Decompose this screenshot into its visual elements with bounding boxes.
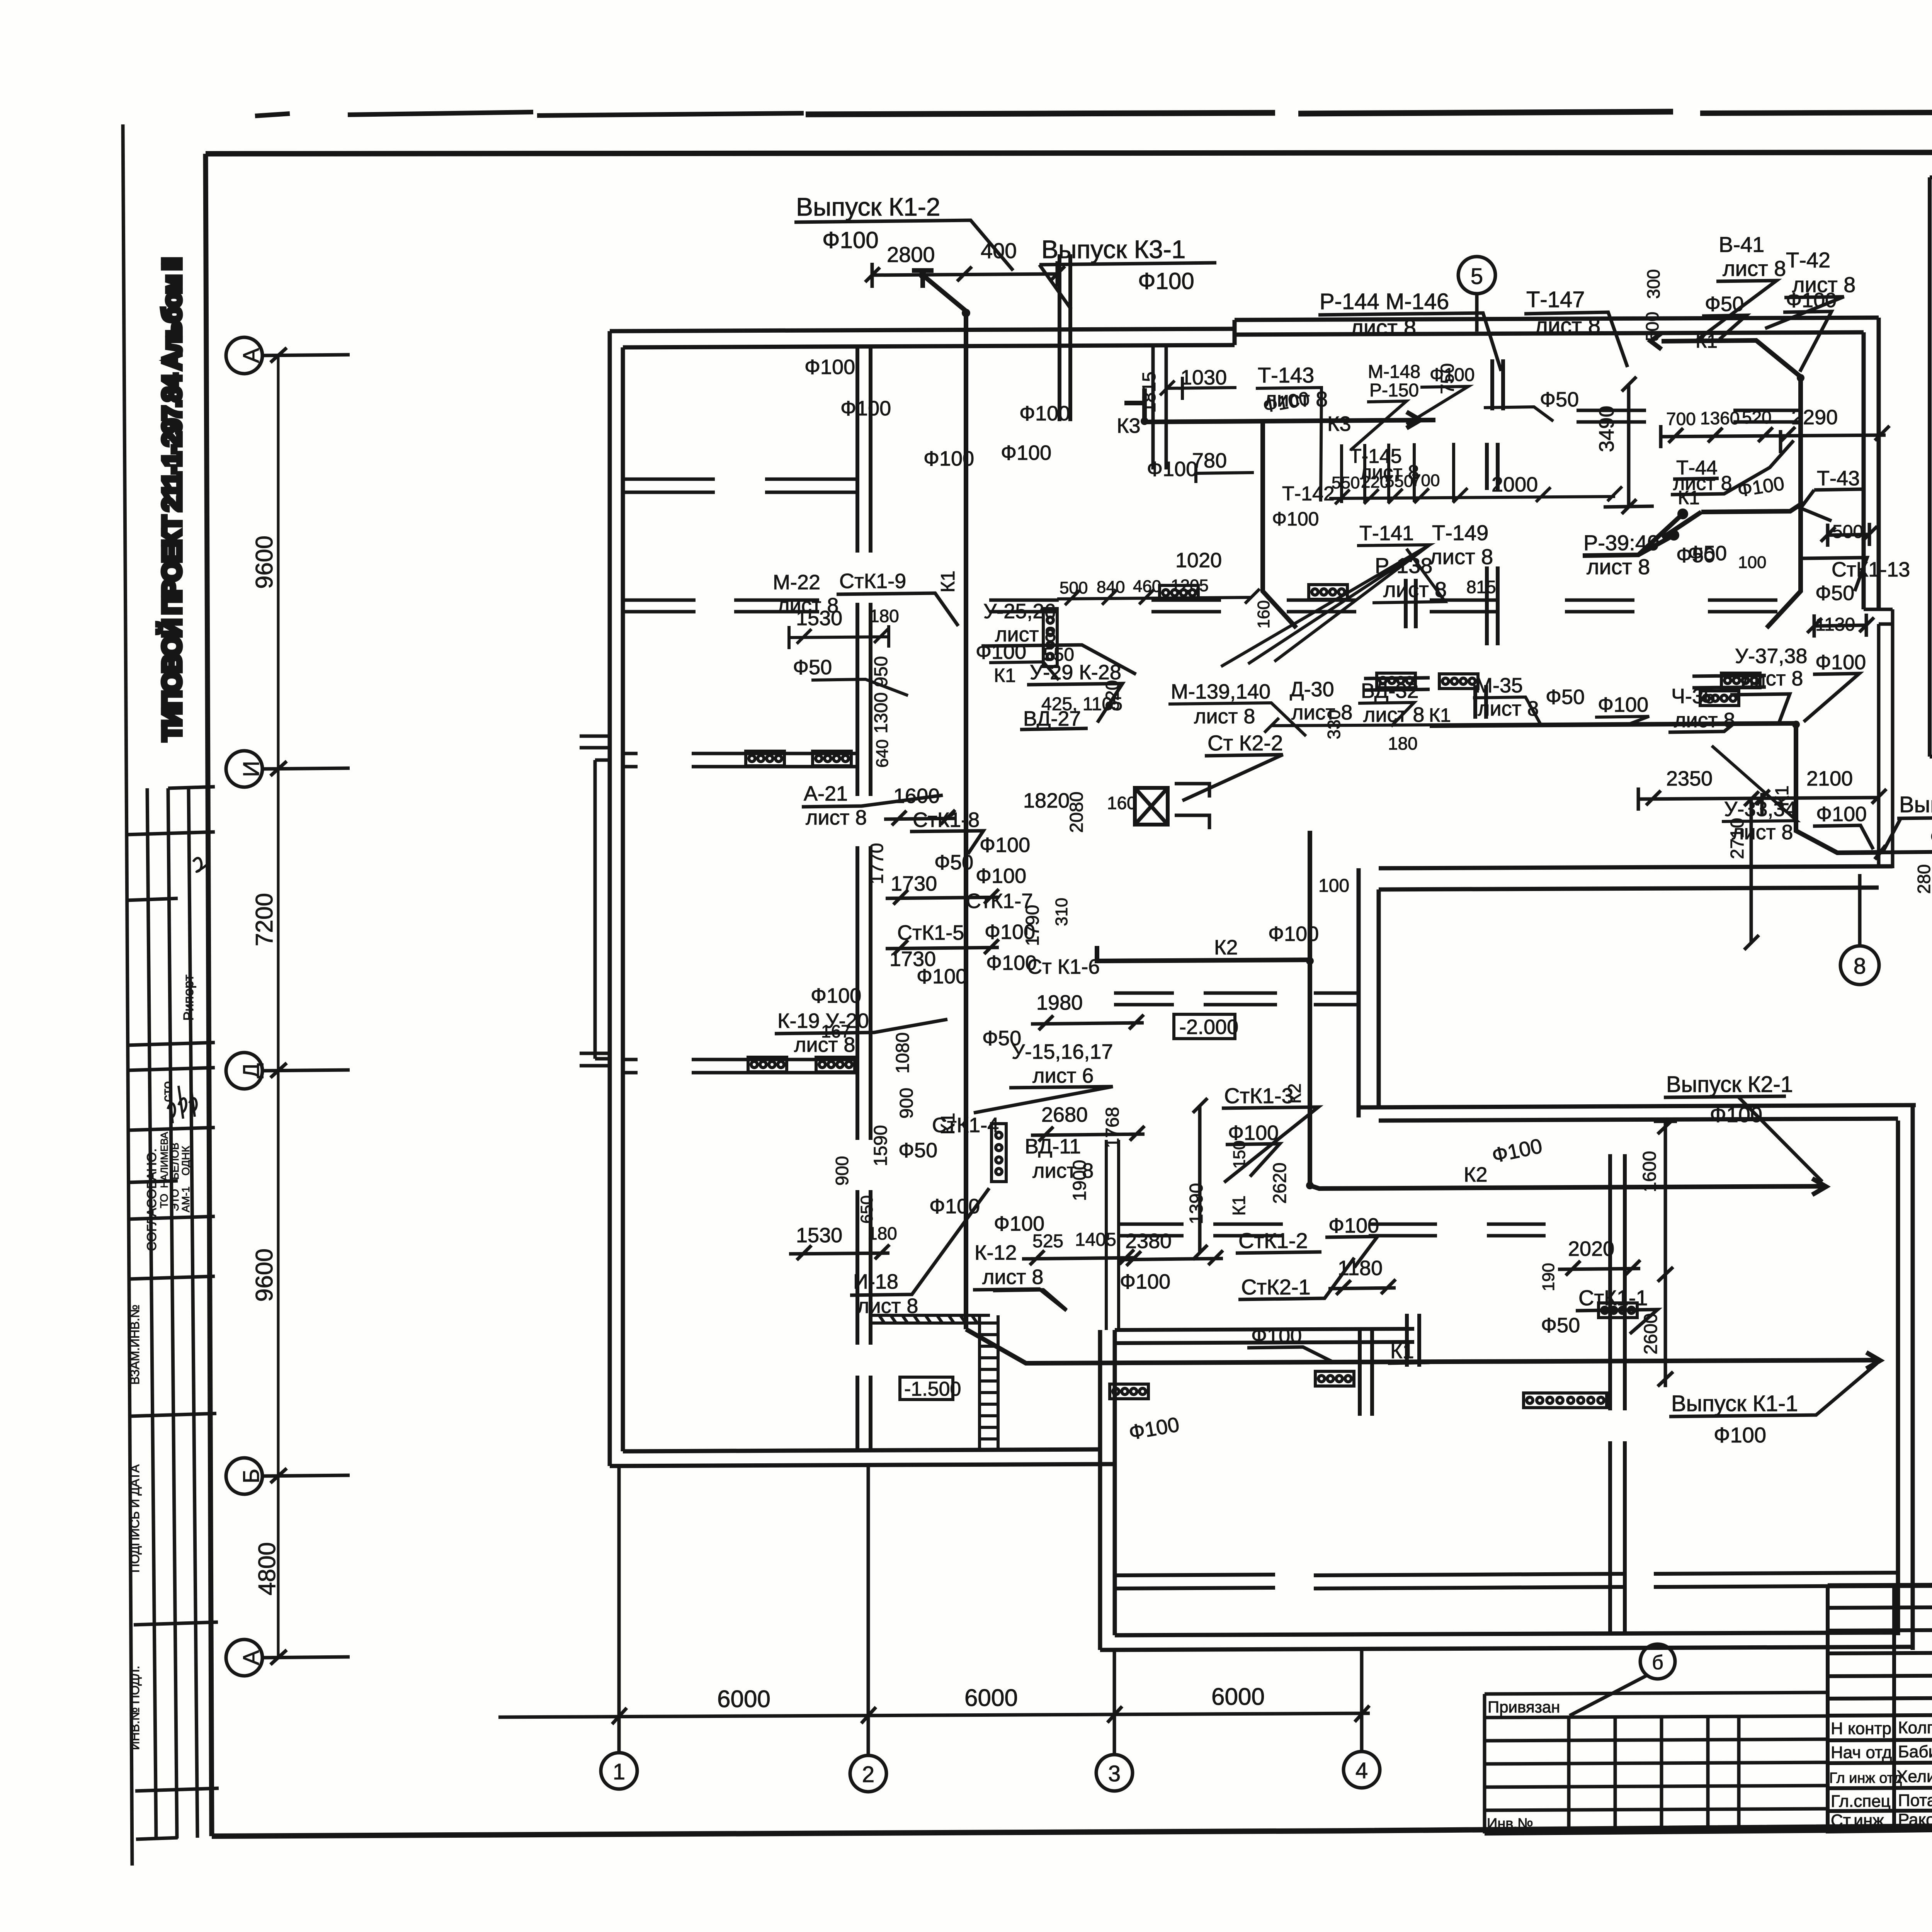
svg-text:Ф100: Ф100 (1272, 508, 1319, 530)
svg-text:Ф50: Ф50 (1676, 544, 1715, 567)
svg-text:лист 8: лист 8 (1587, 554, 1650, 579)
svg-text:Инв.№: Инв.№ (1487, 1816, 1533, 1832)
svg-text:4800: 4800 (254, 1542, 281, 1595)
svg-text:7200: 7200 (251, 893, 278, 946)
partition stubs upper row (989, 347, 1803, 612)
svg-text:Ф50: Ф50 (793, 656, 832, 679)
svg-text:900: 900 (896, 1088, 917, 1119)
svg-text:Гл.спец: Гл.спец (1831, 1792, 1891, 1811)
svg-text:4: 4 (1355, 1758, 1368, 1783)
svg-text:У-25,26: У-25,26 (983, 600, 1056, 623)
wall left bump (595, 760, 610, 1059)
svg-text:ТИПОВОЙ ПРОЕКТ 211-1-297.84 А: ТИПОВОЙ ПРОЕКТ 211-1-297.84 Альбом II (157, 257, 187, 741)
svg-text:6000: 6000 (717, 1686, 770, 1713)
svg-text:лист 8: лист 8 (1194, 705, 1255, 728)
svg-text:А: А (239, 1650, 264, 1665)
svg-text:2800: 2800 (887, 242, 935, 267)
svg-text:СтК1-2: СтК1-2 (1238, 1228, 1308, 1253)
svg-text:ЭТО: ЭТО (169, 1189, 181, 1211)
svg-text:А: А (239, 348, 264, 363)
svg-text:К3: К3 (1327, 412, 1351, 435)
svg-text:1768: 1768 (1102, 1107, 1123, 1148)
svg-text:640: 640 (873, 739, 892, 767)
svg-text:К1: К1 (1678, 487, 1700, 509)
svg-text:И-18: И-18 (853, 1270, 898, 1293)
wall left (610, 331, 623, 1466)
svg-text:К2: К2 (1284, 1083, 1304, 1104)
svg-text:К1: К1 (1429, 704, 1451, 726)
svg-text:9600: 9600 (251, 536, 278, 589)
wall bottom right block (1100, 1633, 1913, 1650)
top scan smudge band (255, 111, 1932, 116)
svg-text:1900: 1900 (1070, 1160, 1090, 1201)
svg-text:лист 8: лист 8 (1535, 313, 1600, 338)
svg-text:лист 8: лист 8 (1430, 544, 1493, 569)
left trim line (123, 124, 132, 1866)
wall bottom left block (610, 1449, 1115, 1466)
svg-text:160: 160 (1107, 793, 1137, 813)
elevator shaft (1135, 784, 1209, 829)
svg-text:К-19 У-20: К-19 У-20 (777, 1009, 869, 1032)
svg-text:700: 700 (1666, 409, 1696, 429)
svg-text:ИНВ.№ ПОДЛ.: ИНВ.№ ПОДЛ. (128, 1666, 142, 1750)
left dim labels (251, 536, 281, 1595)
svg-text:3490: 3490 (1595, 406, 1618, 452)
svg-text:Ф100: Ф100 (923, 447, 974, 470)
wall top-left (610, 329, 1235, 347)
svg-text:Ст.инж: Ст.инж (1831, 1811, 1884, 1830)
svg-text:2680: 2680 (1041, 1103, 1088, 1126)
svg-text:1530: 1530 (796, 1224, 842, 1247)
wall top-right (1235, 318, 1879, 345)
svg-text:Т-42: Т-42 (1786, 248, 1830, 272)
svg-text:ТО: ТО (158, 1194, 170, 1208)
svg-text:190: 190 (1539, 1263, 1558, 1291)
ventilation grates (746, 751, 784, 766)
svg-text:К3: К3 (1117, 414, 1141, 437)
svg-text:Ф100: Ф100 (1019, 402, 1070, 425)
svg-text:2620: 2620 (1270, 1163, 1290, 1204)
svg-text:1730: 1730 (891, 872, 937, 895)
svg-text:2350: 2350 (1666, 767, 1713, 790)
svg-text:Ф50: Ф50 (934, 851, 973, 874)
svg-text:2100: 2100 (1806, 767, 1853, 790)
svg-text:Ф100: Ф100 (1120, 1270, 1170, 1293)
svg-text:Ф100: Ф100 (1930, 825, 1932, 849)
wall corridor left (1359, 868, 1379, 1117)
svg-text:СтК1-13: СтК1-13 (1832, 558, 1910, 581)
stair (871, 1315, 998, 1449)
level box -1.500 (900, 1377, 953, 1400)
svg-text:Потапова: Потапова (1898, 1791, 1932, 1810)
svg-text:К1: К1 (994, 665, 1016, 686)
svg-text:К-12: К-12 (975, 1241, 1017, 1264)
svg-text:У-37,38: У-37,38 (1735, 645, 1807, 668)
svg-text:Т-149: Т-149 (1432, 520, 1488, 545)
svg-text:Ф100: Ф100 (917, 965, 967, 988)
level box -2.000 (1174, 1014, 1235, 1039)
svg-text:Ф50: Ф50 (982, 1027, 1021, 1050)
svg-text:500: 500 (1642, 312, 1662, 342)
svg-text:Ф100: Ф100 (1268, 922, 1319, 946)
interior walls right block (1106, 1140, 1625, 1635)
svg-text:К1: К1 (1390, 1340, 1414, 1363)
svg-text:Ст К1-6: Ст К1-6 (1027, 955, 1100, 978)
svg-text:180: 180 (869, 606, 899, 626)
svg-text:310: 310 (1052, 898, 1071, 926)
svg-text:Д-30: Д-30 (1290, 678, 1334, 701)
wall right jog (1864, 609, 1893, 868)
svg-text:Хелимский: Хелимский (1896, 1767, 1932, 1786)
svg-text:Ф100: Ф100 (1328, 1214, 1379, 1237)
svg-text:ВД-11: ВД-11 (1025, 1135, 1081, 1158)
wall right lower (1898, 1105, 1913, 1650)
svg-text:280: 280 (1914, 864, 1932, 894)
svg-text:лист 8: лист 8 (982, 1265, 1043, 1289)
sidebar small rotated labels (128, 975, 196, 1750)
svg-text:Т-141: Т-141 (1359, 522, 1414, 545)
privyazki mini table (1485, 1692, 1828, 1834)
svg-text:Т-142: Т-142 (1282, 483, 1335, 505)
svg-text:Ф50: Ф50 (1815, 582, 1854, 605)
svg-text:б: б (1652, 1651, 1663, 1674)
svg-text:СтК1-3: СтК1-3 (1224, 1083, 1294, 1108)
svg-text:-2.000: -2.000 (1179, 1015, 1238, 1039)
svg-text:Т-43: Т-43 (1817, 467, 1860, 490)
svg-text:525: 525 (1032, 1231, 1063, 1252)
left axis circles (226, 337, 350, 1676)
svg-text:500: 500 (1832, 522, 1863, 542)
svg-text:1300: 1300 (871, 692, 891, 734)
svg-text:И: И (239, 761, 264, 777)
svg-text:Ф100: Ф100 (929, 1195, 980, 1218)
svg-text:Выпуск К2-1: Выпуск К2-1 (1666, 1072, 1793, 1097)
svg-text:СОГЛАСОВАНО:: СОГЛАСОВАНО: (145, 1148, 159, 1251)
interior partitions left block (580, 479, 857, 1073)
svg-text:Ф50: Ф50 (1541, 1314, 1580, 1337)
svg-text:ВД-27: ВД-27 (1023, 707, 1081, 730)
svg-text:Ф100: Ф100 (1138, 268, 1194, 294)
svg-text:лист 8: лист 8 (1723, 256, 1786, 281)
svg-text:815: 815 (1466, 577, 1496, 597)
svg-text:1790: 1790 (1022, 905, 1043, 946)
svg-text:Ф100: Ф100 (811, 984, 861, 1007)
svg-text:лист 6: лист 6 (1032, 1064, 1094, 1087)
svg-text:2710: 2710 (1727, 818, 1748, 859)
svg-text:Ф100: Ф100 (804, 355, 855, 379)
svg-text:Ф100: Ф100 (1147, 457, 1197, 481)
svg-text:Ф50: Ф50 (1705, 293, 1744, 316)
svg-text:1020: 1020 (1175, 549, 1222, 572)
svg-text:лист 8: лист 8 (857, 1294, 918, 1318)
partition stubs lower row (1117, 1224, 1546, 1236)
svg-text:100: 100 (1318, 876, 1349, 896)
svg-text:ОДНК: ОДНК (180, 1146, 192, 1175)
svg-text:1: 1 (613, 1759, 625, 1784)
svg-text:Гл инж отд: Гл инж отд (1829, 1770, 1902, 1786)
bottom axis (498, 1466, 1380, 1792)
svg-text:2080: 2080 (1066, 792, 1087, 833)
svg-text:3: 3 (1108, 1761, 1121, 1786)
svg-text:Ракова: Ракова (1898, 1810, 1932, 1829)
svg-text:НАЛИМЕВА: НАЛИМЕВА (158, 1132, 170, 1188)
left sidebar strip (126, 787, 219, 1839)
svg-text:700: 700 (1412, 471, 1440, 490)
svg-text:Рипорт: Рипорт (180, 975, 196, 1020)
svg-text:К1: К1 (1772, 786, 1793, 807)
svg-text:лист 8: лист 8 (1350, 315, 1416, 340)
svg-text:М-35: М-35 (1475, 674, 1523, 697)
svg-text:1390: 1390 (1186, 1183, 1207, 1225)
svg-text:ПОДПИСЬ И ДАТА: ПОДПИСЬ И ДАТА (128, 1464, 142, 1573)
svg-text:8: 8 (1854, 954, 1866, 979)
svg-text:1030: 1030 (1180, 366, 1227, 389)
svg-text:1590: 1590 (871, 1125, 891, 1167)
svg-text:300: 300 (1643, 269, 1663, 299)
svg-text:Д: Д (239, 1063, 264, 1078)
svg-text:1080: 1080 (893, 1032, 913, 1074)
svg-text:К1: К1 (1229, 1196, 1249, 1216)
svg-text:М-22: М-22 (773, 571, 820, 594)
svg-text:Р-144 М-146: Р-144 М-146 (1320, 289, 1449, 314)
svg-text:-1.500: -1.500 (904, 1378, 961, 1400)
svg-text:лист 8: лист 8 (794, 1033, 855, 1056)
svg-text:6000: 6000 (1211, 1684, 1265, 1710)
svg-text:Бабин: Бабин (1898, 1742, 1932, 1761)
svg-text:У-15,16,17: У-15,16,17 (1012, 1040, 1113, 1063)
building outer walls (595, 318, 1916, 1650)
circle b pointer (1570, 1644, 1675, 1716)
svg-text:АМ-1: АМ-1 (180, 1187, 192, 1213)
svg-text:Ф100: Ф100 (980, 833, 1030, 857)
svg-text:1980: 1980 (1036, 991, 1083, 1014)
svg-text:А-21: А-21 (804, 782, 848, 805)
svg-text:Ф100: Ф100 (822, 227, 879, 253)
variant outline (1930, 169, 1932, 182)
svg-text:160: 160 (1254, 600, 1273, 628)
svg-text:400: 400 (981, 238, 1017, 263)
svg-text:Выпуск К1-2: Выпуск К1-2 (796, 192, 940, 221)
svg-text:Н контр.: Н контр. (1831, 1719, 1896, 1738)
wall right upper (1864, 318, 1879, 609)
pipe K2 (1097, 831, 1826, 1195)
svg-text:Ф100: Ф100 (1598, 693, 1648, 716)
svg-text:6000: 6000 (964, 1685, 1018, 1711)
sheet border frame (206, 152, 1932, 154)
wall corridor bottom (1359, 1105, 1916, 1121)
svg-text:1405: 1405 (1075, 1230, 1116, 1250)
svg-text:5: 5 (1471, 264, 1483, 289)
svg-text:Ф100: Ф100 (1001, 441, 1051, 464)
svg-text:Выпуск К1-3: Выпуск К1-3 (1899, 792, 1932, 817)
pipe K1 upper right (1430, 333, 1880, 853)
svg-text:СтК1-1: СтК1-1 (1578, 1286, 1648, 1310)
svg-text:Ф100: Ф100 (1251, 1324, 1302, 1347)
svg-text:М-148: М-148 (1368, 362, 1420, 382)
svg-text:сто: сто (159, 1081, 175, 1102)
svg-text:2290: 2290 (1791, 406, 1838, 429)
svg-text:Выпуск К3-1: Выпуск К3-1 (1041, 235, 1186, 264)
svg-text:Т-143: Т-143 (1258, 363, 1314, 387)
svg-text:460: 460 (1133, 577, 1161, 596)
svg-text:1600: 1600 (1639, 1151, 1660, 1192)
svg-text:Колганова: Колганова (1898, 1718, 1932, 1737)
svg-text:Ф50: Ф50 (1546, 685, 1585, 709)
svg-text:К1: К1 (937, 571, 959, 593)
svg-text:1815: 1815 (1139, 372, 1160, 413)
svg-text:1770: 1770 (867, 843, 887, 884)
svg-text:лист 8: лист 8 (806, 806, 867, 829)
wall left of bottom block (1100, 1330, 1115, 1650)
svg-text:Р-150: Р-150 (1369, 380, 1419, 401)
svg-text:Ф50: Ф50 (898, 1139, 937, 1162)
svg-text:В-41: В-41 (1719, 232, 1764, 257)
svg-text:2020: 2020 (1568, 1237, 1614, 1260)
pipe exit K1-3 (1875, 845, 1932, 859)
svg-text:М-139,140: М-139,140 (1171, 680, 1270, 703)
svg-text:К2: К2 (1214, 936, 1238, 959)
svg-text:2: 2 (862, 1762, 874, 1787)
svg-text:Т-147: Т-147 (1526, 287, 1585, 312)
svg-text:Б: Б (239, 1469, 264, 1483)
wall bottom of upper-right block (1379, 866, 1893, 889)
svg-text:ВЗАМ.ИНВ.№: ВЗАМ.ИНВ.№ (128, 1304, 142, 1384)
svg-text:1820: 1820 (1023, 789, 1070, 812)
svg-text:1530: 1530 (796, 607, 842, 630)
svg-text:Ф100: Ф100 (1816, 803, 1867, 826)
svg-text:Ф100: Ф100 (1714, 1423, 1766, 1447)
svg-text:К1: К1 (937, 1113, 959, 1135)
svg-text:750: 750 (1437, 363, 1458, 394)
svg-text:К2: К2 (1464, 1163, 1488, 1186)
svg-text:520: 520 (1742, 407, 1772, 427)
svg-text:1205: 1205 (1171, 576, 1209, 595)
svg-text:Ф100: Ф100 (840, 397, 891, 420)
svg-text:650: 650 (857, 1195, 876, 1223)
svg-text:9600: 9600 (251, 1248, 278, 1302)
svg-text:1360: 1360 (1700, 408, 1740, 428)
interior corridor wall x2219 (857, 347, 871, 1451)
wall step bottom block (1115, 1329, 1414, 1343)
svg-text:Ст К2-2: Ст К2-2 (1207, 731, 1283, 755)
svg-text:СтК2-1: СтК2-1 (1241, 1275, 1311, 1299)
svg-text:180: 180 (1388, 733, 1418, 753)
svg-text:Привязан: Привязан (1488, 1698, 1560, 1716)
svg-text:БЕЛОВ: БЕЛОВ (169, 1143, 181, 1180)
svg-text:Ф100: Ф100 (976, 640, 1026, 663)
svg-text:180: 180 (867, 1223, 897, 1243)
svg-text:Выпуск К1-1: Выпуск К1-1 (1671, 1391, 1798, 1416)
partition stubs mid row (1114, 993, 1360, 1005)
svg-text:Ф100: Ф100 (976, 864, 1026, 888)
svg-text:СтК1-9: СтК1-9 (839, 570, 906, 593)
svg-text:550: 550 (1332, 473, 1360, 492)
pipe K3 (1124, 388, 1435, 628)
svg-text:Ф50: Ф50 (1540, 388, 1579, 411)
svg-text:Ф100: Ф100 (1815, 651, 1866, 674)
corridor bottom block (1115, 1573, 1898, 1588)
svg-text:100: 100 (1738, 553, 1766, 572)
svg-text:Нач отд: Нач отд (1831, 1743, 1892, 1762)
svg-text:900: 900 (832, 1156, 852, 1186)
pipe K1 main vertical (912, 270, 1880, 1369)
circle 8 (1840, 874, 1879, 985)
